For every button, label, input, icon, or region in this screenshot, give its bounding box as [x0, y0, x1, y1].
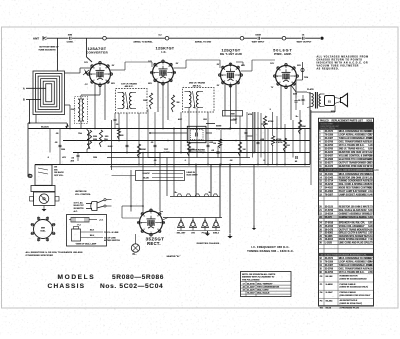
capacitor C16: [59, 144, 62, 146]
wire short links midband: [148, 157, 160, 159]
node A lead: [26, 87, 46, 89]
wire heater bus y164: [35, 164, 310, 166]
wire rect drops: [130, 170, 132, 212]
socket plug bottom view: [34, 220, 53, 239]
ballast resistor P-2: [71, 218, 89, 223]
wire B lead drop: [29, 100, 31, 124]
capacitor C9: [217, 151, 220, 153]
wire speaker connections: [335, 98, 341, 99]
note box 5C03 changes: [241, 272, 292, 297]
capacitor C10: [245, 131, 248, 133]
wire rect links: [131, 205, 143, 207]
electrolytic condenser C20: [292, 158, 294, 161]
capacitor across output 0.05: [302, 95, 304, 105]
wire ext-antenna segment 7: [286, 37, 302, 39]
wire right rail x335: [334, 106, 336, 113]
resistor R17: [283, 138, 286, 152]
wire left x111 vertical: [111, 120, 113, 170]
wire det area verticals: [246, 112, 248, 158]
wire into electrolytic: [150, 132, 187, 134]
terminal strip loop leads: [136, 171, 185, 181]
ground denotes chassis: [205, 234, 210, 236]
wire ext-antenna segment 8: [305, 37, 320, 39]
capacitor C8: [114, 118, 117, 120]
wire heater bus y166: [110, 166, 310, 168]
junction dots on buses: [94, 128, 96, 130]
node B lead: [26, 99, 41, 101]
svg-text:96-06: 96-06: [326, 308, 332, 310]
tube U1 12SA7GT converter: [90, 64, 111, 85]
junction dots midband: [118, 140, 120, 142]
switch SW1 on-off: [35, 165, 52, 186]
parts table gap 2: [319, 243, 374, 245]
junction ring 1: [103, 36, 107, 40]
parts list table: [319, 118, 374, 306]
wire U4 plate to output transformer: [291, 85, 296, 92]
IF transformer T2 1st IF 455KC: [116, 89, 148, 114]
grid cap U3: [242, 62, 244, 66]
capacitor C3 padder: [77, 154, 80, 156]
resistor R10: [99, 130, 102, 147]
junction ring 4: [282, 36, 286, 40]
speaker LS1: [325, 96, 335, 106]
resistor R7 470M: [263, 116, 266, 128]
antenna terminal connector: [42, 36, 44, 41]
wire left rail: [27, 123, 29, 176]
heater string lamps: [163, 217, 222, 219]
wire drops from U1: [94, 84, 96, 129]
resistor R13: [117, 128, 120, 139]
scan noise overlay: [0, 0, 1, 1]
ground chassis symbol center: [227, 236, 232, 238]
wire x311 rail lower: [310, 110, 312, 185]
wire bus y152: [73, 152, 310, 154]
trimmer capacitor antenna: [83, 70, 89, 75]
wire top links between tubes: [111, 73, 153, 75]
parts table gap: [319, 195, 374, 197]
dial lamp cartridge: [72, 229, 81, 241]
resistor R9: [88, 130, 91, 149]
coil FC osc padder: [87, 130, 89, 149]
resistor R18: [298, 120, 301, 134]
wire bus B-minus y128: [29, 128, 311, 130]
tube U5 35Z5GT rectifier: [140, 211, 163, 234]
tuning capacitor VC1: [34, 192, 56, 206]
resistor R16: [238, 142, 241, 156]
wire cluster det/output area: [253, 112, 255, 153]
wire drops from U2: [157, 82, 159, 112]
tuning gang frame: [31, 186, 55, 192]
wire left column x70: [69, 123, 71, 129]
wire right rail x310: [309, 92, 311, 165]
junction ring 3: [240, 36, 244, 40]
capacitor C14: [257, 141, 260, 143]
loop antenna L1: [33, 71, 65, 115]
oscillator transformer outline: [75, 97, 88, 124]
electrolytic condenser block C30: [187, 126, 206, 142]
capacitor C-ant 50M: [69, 37, 71, 40]
resistor R14: [137, 144, 140, 158]
resistor R12 candohm section: [170, 196, 220, 198]
wire loop top to converter grid: [65, 72, 81, 74]
capacitor C12: [154, 144, 157, 146]
ground small right: [252, 228, 256, 230]
tube U2 12SK7GT IF amp: [153, 62, 174, 83]
capacitor C-out 15: [302, 37, 304, 40]
resistor R6: [218, 139, 221, 148]
resistor R5: [171, 95, 174, 112]
switch SW1b contacts: [97, 200, 104, 203]
wire ext-antenna segment 4: [169, 37, 240, 39]
capacitor C11: [295, 100, 298, 102]
parts table section C header: [319, 253, 374, 256]
tube U4 50L6GT output: [276, 66, 297, 87]
junction dot end: [320, 37, 323, 40]
wire antenna drop: [57, 38, 59, 71]
pilot lamp PL1: [131, 244, 139, 252]
wire cluster conv/if area: [118, 113, 120, 141]
wire ext-antenna segment 2: [72, 37, 103, 39]
capacitor C-line 100M: [257, 37, 259, 40]
wire bottom verticals: [229, 165, 231, 234]
wire bus y157: [107, 157, 250, 159]
wire drops from U3: [224, 84, 226, 116]
terminal C: [28, 174, 31, 177]
wire ext-antenna segment 1: [47, 37, 69, 39]
wire to terminal strip: [112, 170, 136, 175]
junction dots rect area: [142, 205, 144, 207]
wire bus y140: [63, 140, 310, 142]
wire gang to ground: [43, 206, 45, 210]
wire drops from U4: [280, 86, 282, 129]
parts table dark band row: [319, 168, 374, 172]
junction ring 2: [165, 36, 169, 40]
volume control R3 box: [223, 111, 243, 117]
oscillator coil T1: [78, 99, 80, 121]
wire ext-antenna segment 6: [261, 37, 282, 39]
wire heater chain to bus: [253, 165, 255, 226]
wire ext-antenna segment 3: [106, 37, 165, 39]
resistor R8 2 watt: [271, 136, 274, 146]
wire loop black lead: [35, 115, 37, 124]
junction left rail: [29, 122, 31, 124]
svg-text:2 PRONGED PLUG: 2 PRONGED PLUG: [340, 307, 360, 309]
resistor R15: [187, 142, 190, 156]
capacitor C15: [126, 144, 129, 146]
IF transformer T3 2nd IF 455KC: [183, 88, 215, 113]
capacitor C13: [207, 144, 210, 146]
grid cap U4: [302, 62, 304, 80]
power plug P1: [91, 202, 97, 211]
wire osc drop: [80, 121, 82, 129]
wire ext-antenna segment 5: [244, 37, 257, 39]
resistor R4: [149, 93, 152, 109]
parts table column rules: [323, 122, 325, 306]
wire loop bottom lead: [65, 104, 71, 106]
tube U3 12SQ7GT detector: [221, 65, 241, 85]
wire heater bottom: [177, 230, 220, 232]
detail box dial lamp: [67, 215, 107, 247]
